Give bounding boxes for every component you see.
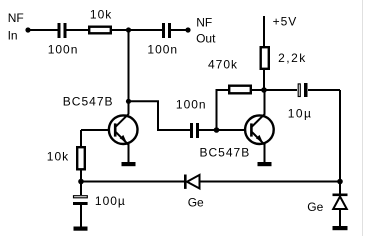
svg-text:10k: 10k <box>90 8 112 22</box>
svg-text:Out: Out <box>196 32 216 46</box>
svg-text:Ge: Ge <box>188 195 204 209</box>
svg-text:10k: 10k <box>47 150 69 164</box>
svg-text:Ge: Ge <box>307 200 323 214</box>
svg-text:NF: NF <box>196 16 212 30</box>
svg-text:2,2k: 2,2k <box>278 51 307 65</box>
svg-text:100µ: 100µ <box>95 194 126 208</box>
svg-text:470k: 470k <box>208 58 238 72</box>
svg-text:BC547B: BC547B <box>63 95 114 109</box>
svg-text:10µ: 10µ <box>288 107 313 121</box>
svg-text:In: In <box>8 29 18 43</box>
svg-text:NF: NF <box>8 11 24 25</box>
svg-text:+5V: +5V <box>273 15 298 29</box>
svg-text:100n: 100n <box>176 98 207 112</box>
svg-text:100n: 100n <box>48 43 79 57</box>
svg-text:100n: 100n <box>147 43 178 57</box>
svg-text:BC547B: BC547B <box>200 146 251 160</box>
